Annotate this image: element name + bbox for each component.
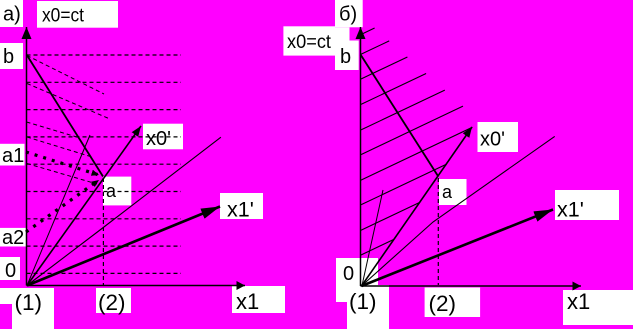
label box а) — [0, 0, 23, 27]
svg-text:(1): (1) — [349, 289, 377, 314]
label box 0 right — [336, 258, 378, 302]
svg-text:x1': x1' — [227, 198, 254, 222]
label box a1 — [0, 144, 25, 166]
vertical axis x0=ct (right) — [360, 27, 362, 286]
label box (2) left — [96, 288, 131, 313]
svg-text:a2: a2 — [2, 227, 24, 249]
worldline b to a (left) — [27, 55, 104, 177]
steep thin line from origin (right) — [362, 190, 383, 286]
label box (2) right — [425, 288, 481, 318]
svg-text:a: a — [106, 181, 117, 201]
label box (1) left — [12, 288, 54, 329]
label box x1' right — [555, 190, 619, 220]
svg-text:a: a — [442, 182, 453, 202]
svg-text:0: 0 — [343, 263, 354, 285]
x0' axis (right) — [362, 127, 473, 286]
svg-text:а): а) — [3, 4, 21, 26]
hatch lines (right) — [361, 28, 472, 255]
svg-text:(2): (2) — [429, 291, 457, 316]
horizontal axis x1 (left) — [27, 285, 246, 287]
svg-text:x0': x0' — [480, 129, 505, 151]
label box a right — [439, 179, 467, 205]
svg-text:0: 0 — [5, 260, 16, 282]
vertical axis x0=ct (left) — [26, 27, 28, 286]
x1' axis (left, bold) — [27, 207, 220, 286]
slanted thin dashed signal lines (left) — [27, 56, 111, 185]
middle thin line from origin (right) — [362, 136, 555, 285]
svg-text:a1: a1 — [2, 145, 24, 167]
dashed vertical at (2) left — [102, 178, 104, 285]
label strip under origin (left) — [0, 288, 54, 304]
svg-text:(2): (2) — [98, 290, 126, 315]
label box б) — [335, 0, 363, 27]
label box x1 left — [232, 286, 285, 313]
svg-text:(1): (1) — [15, 290, 43, 315]
worldline b to a (right) — [361, 55, 439, 177]
svg-text:x0=ct: x0=ct — [287, 32, 332, 53]
label box x0' left — [143, 124, 183, 150]
label box b (left) — [0, 43, 23, 69]
label box x0=ct (left) — [37, 1, 118, 28]
label box (1) right — [347, 285, 389, 329]
dashed vertical at (2) right — [437, 178, 439, 285]
label box a left — [103, 177, 131, 206]
label bridge (right b column) — [335, 27, 350, 40]
svg-text:x1: x1 — [236, 289, 259, 314]
svg-text:x0=ct: x0=ct — [42, 5, 85, 26]
label box a2 — [0, 228, 26, 247]
label box x1 right — [563, 290, 633, 325]
svg-text:x1: x1 — [567, 289, 590, 314]
bold dotted line a2 to a — [26, 180, 99, 232]
label box x1' left — [220, 193, 263, 219]
steep thin line from origin (left) — [27, 135, 90, 286]
svg-text:b: b — [340, 46, 351, 68]
svg-text:x1': x1' — [557, 198, 584, 222]
label box 0 (left) — [0, 257, 20, 280]
x0' axis (left) — [27, 126, 141, 286]
label box b (right) — [335, 41, 359, 71]
bold dotted line a1 to a — [26, 152, 99, 175]
middle thin line from origin (left) — [27, 137, 221, 285]
x1' axis (right, bold) — [362, 210, 554, 287]
svg-text:б): б) — [339, 4, 357, 26]
label box x0' right — [478, 122, 519, 152]
horizontal dashed grid lines (left) — [27, 55, 182, 273]
horizontal axis x1 (right) — [361, 285, 582, 287]
svg-text:x0': x0' — [146, 128, 171, 150]
svg-text:b: b — [3, 46, 14, 68]
label box x0=ct (right) — [283, 26, 335, 55]
